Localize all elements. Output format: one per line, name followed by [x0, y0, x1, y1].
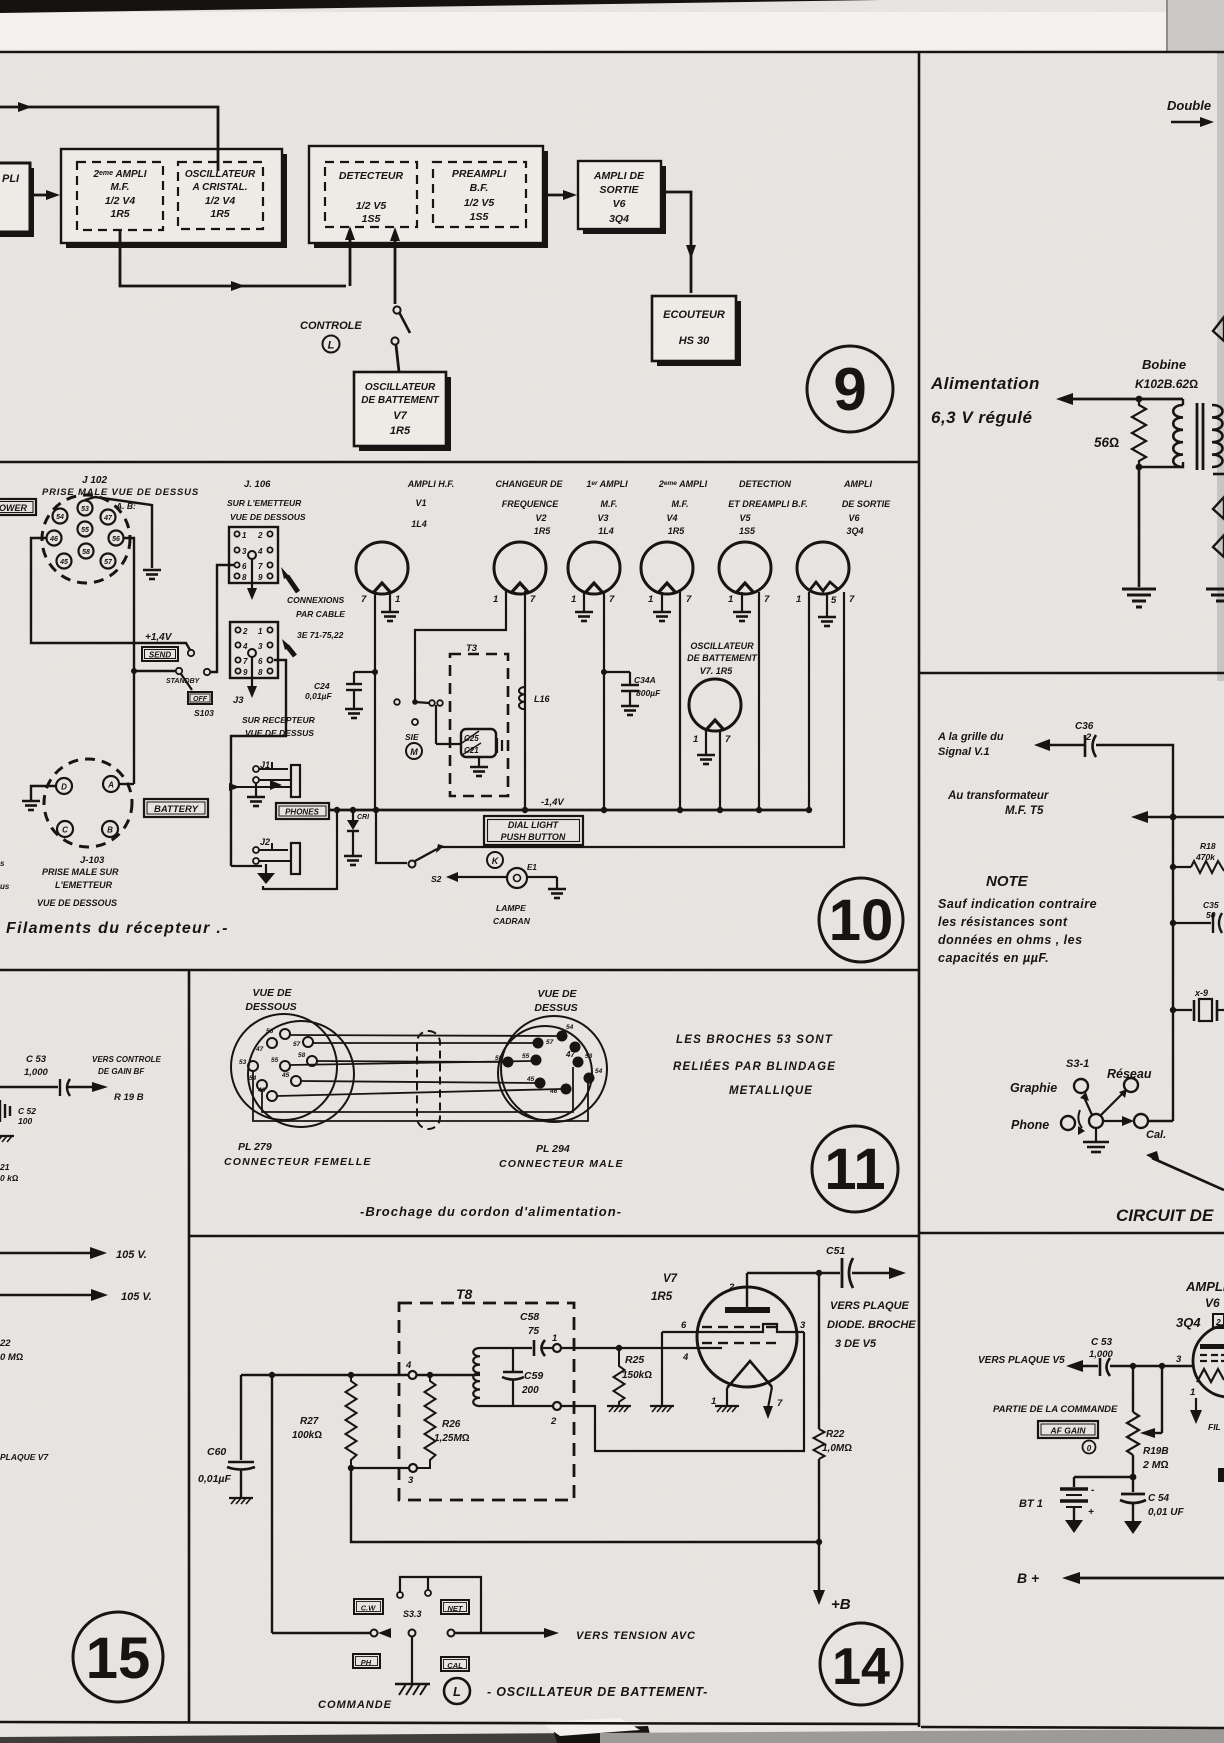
svg-text:C 53: C 53 [1091, 1337, 1113, 1348]
svg-text:V5: V5 [739, 513, 751, 523]
capacitor C59 200 [512, 1348, 514, 1371]
svg-text:0,01µF: 0,01µF [198, 1473, 231, 1485]
svg-text:NOTE: NOTE [986, 873, 1029, 890]
label AF GAIN [1038, 1421, 1098, 1438]
svg-text:7: 7 [686, 594, 692, 605]
svg-text:7: 7 [258, 562, 263, 571]
wires bobine [1139, 462, 1183, 467]
svg-text:us: us [0, 882, 10, 891]
svg-text:58: 58 [82, 549, 90, 556]
ground (J102) [143, 570, 161, 579]
potentiometer R19B 2M [1132, 1366, 1134, 1412]
svg-text:5: 5 [831, 595, 837, 606]
capacitor C54 [1121, 1493, 1145, 1496]
svg-text:57: 57 [293, 1041, 301, 1048]
V6 plate pin2 box [1213, 1314, 1224, 1328]
V6 filament [1197, 1369, 1224, 1382]
svg-text:C34A: C34A [634, 675, 656, 685]
V7 filament [727, 1361, 772, 1388]
J106 center pin with arrow [248, 551, 256, 559]
wire V3 pin1 to ground [583, 592, 585, 611]
svg-text:1: 1 [395, 594, 400, 605]
wire V5 pin7 to bus [758, 592, 760, 810]
svg-text:3: 3 [408, 1475, 414, 1486]
ground J2 (arrow style) [265, 864, 267, 873]
svg-text:2 MΩ: 2 MΩ [1142, 1459, 1169, 1471]
svg-text:75: 75 [528, 1326, 540, 1337]
frame: bottom border left [0, 1722, 919, 1724]
svg-text:58: 58 [298, 1052, 306, 1059]
svg-text:Sauf indication contraire: Sauf indication contraire [938, 897, 1097, 911]
svg-text:1L4: 1L4 [598, 526, 614, 536]
svg-text:1,0MΩ: 1,0MΩ [822, 1443, 852, 1454]
svg-text:PRISE MALE VUE DE DESSUS: PRISE MALE VUE DE DESSUS [42, 487, 199, 498]
wire V1 pin7 to bus and dial switch [374, 591, 376, 810]
V6 grids [1200, 1355, 1224, 1361]
svg-text:1,000: 1,000 [24, 1067, 48, 1078]
svg-text:1: 1 [493, 594, 498, 605]
dashed box oscillateur a cristal 1/2 V4 1R5 [178, 162, 263, 229]
wire pin2 to grid return [561, 1332, 804, 1451]
svg-text:1: 1 [258, 627, 263, 636]
figure number 11 [812, 1126, 898, 1212]
cable wires [253, 1035, 588, 1121]
svg-text:OSCILLATEUR: OSCILLATEUR [185, 169, 256, 180]
figure number 15 [73, 1612, 163, 1702]
connector J103 (dashed circle) [44, 759, 132, 847]
svg-text:1S5: 1S5 [739, 526, 756, 536]
connector J3 [230, 622, 278, 678]
wire arrow into block A [30, 194, 56, 197]
wire J102 pin56 down to J103 pin A [124, 538, 134, 784]
PL279 pins (female, open) [248, 1029, 317, 1101]
svg-text:CONNECTEUR FEMELLE: CONNECTEUR FEMELLE [224, 1156, 372, 1168]
tube V7 oscillateur [689, 679, 741, 731]
svg-text:3: 3 [1176, 1354, 1182, 1365]
svg-text:150kΩ: 150kΩ [622, 1370, 652, 1381]
svg-text:+1,4V: +1,4V [145, 632, 173, 643]
svg-text:1: 1 [552, 1333, 557, 1344]
V7 plate [725, 1307, 770, 1313]
svg-text:T3: T3 [466, 643, 478, 654]
svg-text:1/2 V5: 1/2 V5 [356, 200, 387, 212]
controle switch contacts [393, 306, 400, 313]
svg-text:9: 9 [833, 356, 866, 423]
svg-text:Bobine: Bobine [1142, 357, 1186, 372]
svg-text:M.F.: M.F. [601, 499, 618, 509]
svg-text:T8: T8 [456, 1286, 473, 1302]
capacitor C24 [354, 671, 375, 673]
switch S103 wiper node [204, 669, 210, 675]
svg-text:M.F.: M.F. [672, 499, 689, 509]
svg-text:RELIÉES PAR BLINDAGE: RELIÉES PAR BLINDAGE [673, 1060, 836, 1073]
svg-text:53: 53 [239, 1059, 247, 1066]
ground T3 [478, 757, 480, 766]
svg-text:0 kΩ: 0 kΩ [0, 1173, 19, 1183]
svg-text:V7. 1R5: V7. 1R5 [700, 666, 734, 676]
tube V5 [719, 542, 771, 594]
svg-text:L16: L16 [534, 694, 551, 704]
switch S103 STANDBY contact [134, 670, 175, 672]
svg-text:C24: C24 [314, 681, 330, 691]
J102 pin 47 [101, 510, 116, 525]
svg-text:50: 50 [1206, 910, 1216, 920]
svg-text:1R5: 1R5 [534, 526, 552, 536]
svg-text:1R5: 1R5 [110, 208, 129, 220]
label POWER [0, 499, 36, 515]
S3-1 contact Graphie [1074, 1079, 1088, 1093]
wire J102 pin46 to S103 [31, 538, 190, 650]
S3-1 contact Cal [1134, 1114, 1148, 1128]
svg-text:L: L [328, 340, 335, 352]
scan artifact: right edge gray strip [1217, 51, 1224, 681]
svg-text:55: 55 [522, 1053, 530, 1060]
S3-1 contact Phone [1061, 1116, 1075, 1130]
svg-text:C60: C60 [207, 1446, 226, 1458]
wire V6 pin5 to ground [826, 593, 828, 616]
svg-text:57: 57 [546, 1039, 554, 1046]
S3-1 center pole [1089, 1114, 1103, 1128]
svg-text:3: 3 [258, 642, 263, 651]
svg-text:M.F. T5: M.F. T5 [1005, 805, 1044, 817]
svg-text:1/2 V4: 1/2 V4 [205, 195, 236, 207]
svg-text:données en ohms , les: données en ohms , les [938, 933, 1083, 947]
svg-text:1R5: 1R5 [210, 208, 229, 220]
tube V4 [641, 542, 693, 594]
wire au transformateur [1131, 811, 1148, 823]
J102 pin 54 [53, 509, 68, 524]
J102 pin 57 [101, 554, 116, 569]
svg-text:FIL: FIL [1208, 1422, 1221, 1432]
svg-text:6: 6 [681, 1320, 687, 1331]
svg-text:K102B.62Ω: K102B.62Ω [1135, 377, 1198, 391]
svg-text:1L4: 1L4 [411, 519, 427, 529]
svg-text:4: 4 [257, 547, 263, 556]
wire bus to J2 [231, 865, 262, 867]
capacitor C34A [604, 671, 630, 673]
svg-text:1: 1 [648, 594, 653, 605]
capacitor C58 75 [480, 1347, 532, 1349]
tube V7 envelope [697, 1287, 797, 1387]
svg-text:B: B [107, 826, 113, 835]
svg-text:45: 45 [281, 1072, 290, 1079]
frame: right panel divider 1 [919, 672, 1224, 675]
connector PL279 shell [231, 1014, 337, 1120]
J102 pin 56 [109, 531, 124, 546]
pointer connexions par cable [287, 576, 298, 592]
svg-text:0,01 UF: 0,01 UF [1148, 1507, 1184, 1518]
svg-text:B +: B + [1017, 1570, 1039, 1586]
frame: fig11/fig14 divider [189, 1235, 919, 1238]
svg-text:A: A [107, 781, 114, 790]
svg-text:PARTIE DE LA COMMANDE: PARTIE DE LA COMMANDE [993, 1404, 1118, 1415]
svg-text:46: 46 [49, 536, 58, 543]
J1 switch arrow [270, 780, 282, 790]
svg-text:3E 71-75,22: 3E 71-75,22 [297, 630, 344, 640]
svg-text:Au transformateur: Au transformateur [947, 790, 1049, 802]
wire block A to detecteur [120, 230, 346, 286]
PL294 pins (male, filled) [503, 1031, 595, 1095]
J102 pin 46 [47, 531, 62, 546]
label PHONES [276, 803, 329, 819]
wire R19B to C54/BT1 [1132, 1455, 1134, 1492]
svg-text:V6: V6 [613, 198, 626, 210]
svg-text:10: 10 [829, 888, 894, 953]
svg-text:A CRISTAL.: A CRISTAL. [192, 182, 248, 193]
frame: bottom border right [921, 1727, 1224, 1728]
svg-text:VERS PLAQUE: VERS PLAQUE [830, 1300, 910, 1312]
wire V3 pin7 to bus [603, 592, 605, 810]
wire junction to S3.3 [271, 1375, 273, 1633]
figure number 10 [819, 878, 903, 962]
svg-text:S3-1: S3-1 [1066, 1058, 1089, 1070]
switch S3.3 contacts [272, 1632, 370, 1634]
wire J103 pin D to ground [31, 786, 56, 800]
svg-text:C36: C36 [1075, 721, 1094, 732]
svg-text:4: 4 [405, 1360, 412, 1371]
block B (detecteur + preampli) [314, 151, 548, 248]
wire V1 pin1 to ground [389, 592, 391, 611]
svg-text:3Q4: 3Q4 [846, 526, 863, 536]
svg-text:J 102: J 102 [82, 475, 107, 486]
svg-text:V6: V6 [848, 513, 860, 523]
svg-text:COMMANDE: COMMANDE [318, 1699, 392, 1711]
wire J3 pin6 to jacks bus [231, 660, 286, 866]
svg-text:3 DE V5: 3 DE V5 [835, 1338, 877, 1350]
svg-text:SORTIE: SORTIE [600, 184, 640, 196]
svg-text:L'EMETTEUR: L'EMETTEUR [55, 880, 113, 890]
svg-text:15: 15 [86, 1626, 151, 1691]
connector J106 [229, 527, 278, 583]
T8 pin 2 [480, 1405, 553, 1407]
svg-text:SEND: SEND [149, 651, 171, 660]
svg-text:Double: Double [1167, 98, 1211, 113]
svg-text:DE GAIN BF: DE GAIN BF [98, 1067, 145, 1076]
svg-text:CONTROLE: CONTROLE [300, 320, 362, 332]
frame: fig9/fig10 divider [0, 461, 919, 464]
switch S3.3 ground [411, 1637, 413, 1683]
svg-text:M.F.: M.F. [111, 182, 130, 193]
svg-text:PL 294: PL 294 [536, 1143, 570, 1155]
svg-text:PL 279: PL 279 [238, 1141, 272, 1153]
svg-text:CONNECTEUR MALE: CONNECTEUR MALE [499, 1158, 624, 1170]
svg-text:VUE DE: VUE DE [252, 987, 292, 999]
svg-text:BATTERY: BATTERY [154, 804, 200, 815]
svg-text:AMPLI: AMPLI [1185, 1279, 1224, 1294]
T8 pin 3 [351, 1467, 409, 1469]
label box cut at edge [1218, 1468, 1224, 1482]
svg-text:HS 30: HS 30 [679, 335, 710, 347]
svg-text:PAR CABLE: PAR CABLE [296, 609, 345, 619]
svg-text:L: L [453, 1684, 461, 1699]
svg-text:6,3 V régulé: 6,3 V régulé [931, 408, 1032, 427]
svg-text:METALLIQUE: METALLIQUE [729, 1085, 813, 1097]
svg-text:6: 6 [242, 562, 247, 571]
svg-text:DESSUS: DESSUS [534, 1002, 577, 1014]
svg-text:LES BROCHES 53 SONT: LES BROCHES 53 SONT [676, 1034, 833, 1046]
wire V6 pin1 to bus [808, 592, 810, 810]
svg-text:100kΩ: 100kΩ [292, 1430, 322, 1441]
svg-text:56: 56 [112, 536, 120, 543]
svg-text:DE BATTEMENT: DE BATTEMENT [361, 395, 439, 406]
wire J103 pin A [119, 783, 134, 785]
node L [444, 1678, 470, 1704]
svg-text:C: C [62, 826, 68, 835]
svg-text:54: 54 [56, 514, 64, 521]
svg-text:PRISE MALE SUR: PRISE MALE SUR [42, 867, 119, 877]
svg-text:CHANGEUR DE: CHANGEUR DE [495, 479, 563, 489]
svg-text:AMPLI DE: AMPLI DE [593, 170, 645, 182]
svg-text:8: 8 [242, 573, 247, 582]
svg-text:x-9: x-9 [1194, 988, 1208, 998]
svg-text:J2: J2 [260, 837, 270, 847]
V6 plate [1200, 1344, 1224, 1349]
svg-text:NET: NET [448, 1604, 464, 1613]
svg-text:SUR L'EMETTEUR: SUR L'EMETTEUR [227, 498, 302, 508]
svg-text:M: M [410, 747, 418, 757]
svg-text:CIRCUIT DE: CIRCUIT DE [1116, 1206, 1214, 1225]
wire V7 pin1 to ground [705, 728, 707, 754]
J102 pin 58 [79, 544, 94, 559]
svg-text:PLI: PLI [2, 173, 20, 185]
tube V3 [568, 542, 620, 594]
svg-text:VERS CONTROLE: VERS CONTROLE [92, 1055, 162, 1064]
svg-text:+B: +B [831, 1596, 851, 1613]
svg-text:200: 200 [521, 1385, 539, 1396]
dashed box detecteur 1/2 V5 1S5 [325, 162, 417, 227]
svg-text:LAMPE: LAMPE [496, 903, 526, 913]
svg-text:6: 6 [258, 657, 263, 666]
J103 pin D [56, 778, 72, 794]
switch S1E [394, 699, 400, 705]
label DIAL LIGHT PUSH BUTTON [484, 816, 583, 845]
svg-text:Cal.: Cal. [1146, 1129, 1166, 1141]
block A (2eme ampli MF + oscillateur a cristal) [66, 154, 287, 248]
svg-text:3: 3 [242, 547, 247, 556]
wire alimentation arrow [1056, 393, 1073, 405]
dashed box 2eme ampli MF 1/2 V4 1R5 [77, 162, 163, 230]
svg-text:1R5: 1R5 [651, 1291, 673, 1303]
wire feedback top [0, 107, 218, 164]
svg-text:R18: R18 [1200, 841, 1216, 851]
svg-text:PREAMPLI: PREAMPLI [452, 168, 507, 180]
wire pin1 to tube [561, 1347, 722, 1349]
J103 pin B [102, 821, 118, 837]
connector J102 (dashed circle) [42, 495, 130, 583]
svg-text:SIE: SIE [405, 732, 419, 742]
block ecouteur HS30 [657, 301, 741, 366]
+B arrow [813, 1590, 825, 1605]
svg-text:7: 7 [849, 594, 855, 605]
T8 pin 4 [409, 1371, 417, 1379]
svg-text:OSCILLATEUR: OSCILLATEUR [690, 641, 754, 651]
wire V4 pin7 to bus [679, 592, 681, 810]
trimmers C25 C21 [435, 705, 437, 744]
svg-text:AMPLI: AMPLI [843, 479, 872, 489]
wire preampli to ampli de sortie [543, 194, 573, 197]
bus junctions [334, 807, 812, 813]
svg-text:56Ω: 56Ω [1094, 435, 1119, 450]
svg-text:4: 4 [242, 642, 248, 651]
svg-text:R 19 B: R 19 B [114, 1092, 144, 1103]
figure number 14 [820, 1623, 902, 1705]
label BATTERY [144, 799, 208, 817]
svg-text:DETECTEUR: DETECTEUR [339, 170, 404, 182]
diode CR1 [352, 810, 354, 820]
wire feedback into oscillateur a cristal [217, 150, 220, 171]
svg-text:1/2 V4: 1/2 V4 [105, 195, 136, 207]
wire V7 pin7 to bus [719, 730, 721, 810]
dial light switch [376, 810, 407, 863]
core [1196, 403, 1199, 470]
svg-text:capacités en µµF.: capacités en µµF. [938, 951, 1049, 965]
switch S103 OFF contact [188, 692, 212, 704]
wire switch to oscillateur de battement [396, 345, 399, 372]
svg-text:V7: V7 [393, 410, 407, 422]
block oscillateur de battement V7 1R5 [359, 377, 451, 451]
svg-text:R19B: R19B [1143, 1446, 1169, 1457]
pointer arrow to switch [1152, 1158, 1224, 1190]
svg-text:DIODE. BROCHE: DIODE. BROCHE [827, 1319, 916, 1331]
ground fragment [0, 1136, 14, 1142]
svg-text:-1,4V: -1,4V [541, 797, 564, 808]
svg-text:V2: V2 [535, 513, 546, 523]
svg-text:DE SORTIE: DE SORTIE [842, 499, 891, 509]
svg-text:PHONES: PHONES [285, 808, 319, 817]
svg-text:C21: C21 [464, 746, 479, 755]
svg-text:2: 2 [1215, 1317, 1221, 1327]
svg-text:Filaments du récepteur .-: Filaments du récepteur .- [6, 920, 229, 937]
resistor R27 100k [346, 1375, 357, 1468]
svg-text:S103: S103 [194, 708, 214, 718]
svg-text:- OSCILLATEUR DE BATTEMENT-: - OSCILLATEUR DE BATTEMENT- [487, 1685, 708, 1699]
frame: fig15 right border [188, 970, 191, 1723]
J102 pin 53 [78, 501, 93, 516]
junction dots pin3 wire [1130, 1363, 1136, 1369]
ground J1 [255, 783, 257, 796]
svg-text:R22: R22 [826, 1429, 845, 1440]
frame: top border [0, 51, 1224, 54]
wire V4 pin1 to ground [661, 592, 663, 611]
svg-text:1/2 V5: 1/2 V5 [464, 197, 495, 209]
svg-text:V6: V6 [1205, 1296, 1220, 1310]
svg-text:47: 47 [103, 515, 113, 522]
svg-text:DESSOUS: DESSOUS [245, 1001, 296, 1013]
svg-text:1: 1 [728, 594, 733, 605]
svg-text:les résistances sont: les résistances sont [938, 915, 1068, 929]
T8 coil [476, 1374, 480, 1376]
svg-text:7: 7 [725, 734, 731, 745]
svg-text:VUE DE DESSUS: VUE DE DESSUS [245, 728, 314, 738]
wire J2 to phones bus [263, 812, 337, 889]
svg-text:OSCILLATEUR: OSCILLATEUR [365, 382, 436, 393]
svg-text:J-103: J-103 [80, 855, 105, 866]
svg-text:C.W: C.W [361, 1604, 377, 1613]
svg-text:D: D [61, 783, 67, 792]
svg-text:105 V.: 105 V. [121, 1291, 152, 1303]
svg-text:14: 14 [832, 1638, 890, 1696]
svg-text:VERS PLAQUE V5: VERS PLAQUE V5 [978, 1355, 1065, 1366]
wire J102 pin53 to ground [85, 497, 152, 568]
svg-text:47: 47 [565, 1050, 575, 1059]
tube V6 envelope (cut at edge) [1193, 1325, 1224, 1397]
svg-text:A la grille du: A la grille du [937, 731, 1004, 743]
svg-text:FREQUENCE: FREQUENCE [502, 499, 560, 509]
svg-text:DIAL LIGHT: DIAL LIGHT [508, 820, 560, 830]
svg-text:2: 2 [242, 627, 248, 636]
svg-text:s: s [0, 859, 5, 868]
svg-text:R27: R27 [300, 1416, 319, 1427]
